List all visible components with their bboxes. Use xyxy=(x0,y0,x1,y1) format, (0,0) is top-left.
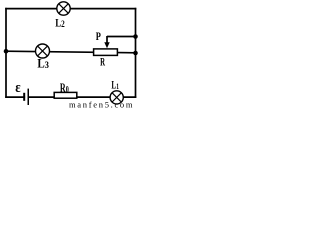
lamp L1 xyxy=(110,91,123,104)
wire bottom horizontal xyxy=(5,96,136,98)
wire left vertical xyxy=(5,8,7,98)
svg-text:R0: R0 xyxy=(60,82,69,95)
battery positive plate tall xyxy=(28,89,30,105)
svg-text:manfen5.com: manfen5.com xyxy=(69,99,134,108)
wiper P arrow xyxy=(104,36,109,48)
label R0 xyxy=(60,82,69,95)
svg-text:L2: L2 xyxy=(55,17,65,30)
wire top horizontal xyxy=(5,8,136,10)
label L2 xyxy=(55,17,65,30)
wire right vertical xyxy=(135,8,137,98)
lamp L3 xyxy=(36,44,50,58)
lamp L2 xyxy=(57,2,70,15)
wire middle horizontal xyxy=(5,51,136,53)
svg-text:ε: ε xyxy=(15,80,20,96)
label R xyxy=(100,56,106,70)
battery negative plate short xyxy=(23,93,25,101)
label P xyxy=(96,31,101,44)
svg-text:L1: L1 xyxy=(111,79,119,92)
node junction left xyxy=(4,49,9,54)
svg-text:P: P xyxy=(96,31,101,44)
label L3 xyxy=(37,56,49,71)
wire wiper horizontal xyxy=(107,36,136,38)
label L1 xyxy=(111,79,119,92)
node junction wiper right xyxy=(133,34,138,39)
battery gap xyxy=(25,92,28,101)
node junction middle right xyxy=(133,51,138,56)
label epsilon xyxy=(15,80,20,96)
svg-text:R: R xyxy=(100,56,106,70)
rheostat R body xyxy=(94,49,118,56)
resistor R0 body xyxy=(54,92,77,98)
